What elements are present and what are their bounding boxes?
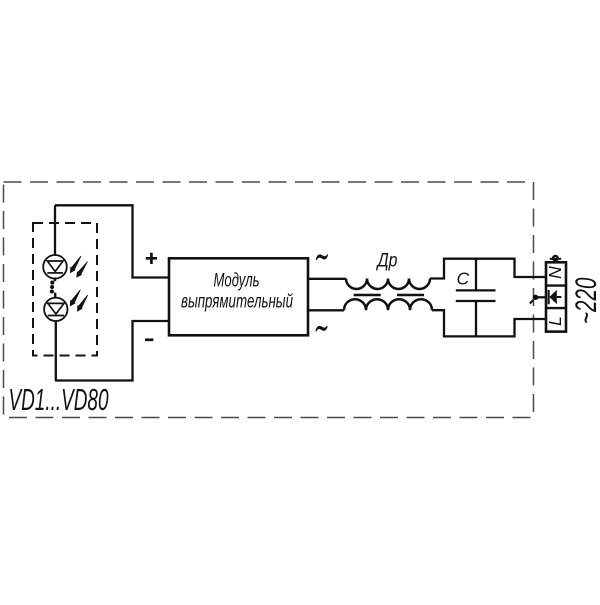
svg-text:Др: Др xyxy=(376,250,398,272)
svg-text:C: C xyxy=(457,268,470,288)
svg-text:VD1...VD80: VD1...VD80 xyxy=(9,383,109,417)
svg-text:~220: ~220 xyxy=(570,277,600,324)
svg-text:Модуль: Модуль xyxy=(214,270,260,292)
svg-text:N: N xyxy=(545,266,565,279)
svg-text:выпрямительный: выпрямительный xyxy=(181,291,293,313)
svg-text:L: L xyxy=(545,316,565,326)
